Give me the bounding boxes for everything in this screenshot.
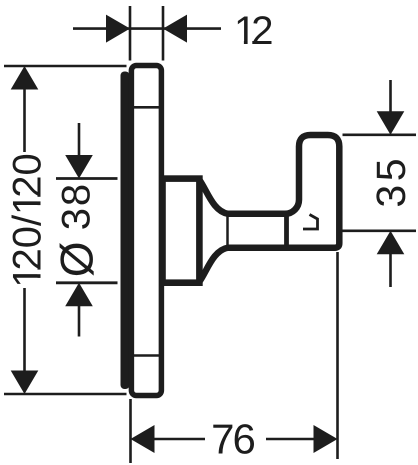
dim 35 arrow down [377, 111, 405, 135]
stem taper, neck and hook bar outline [200, 135, 339, 281]
svg-text:12: 12 [234, 9, 273, 53]
dim 38 arrow up [65, 283, 93, 307]
serif trim of rotated digit 1s [37, 270, 42, 275]
svg-text:120/120: 120/120 [6, 153, 50, 288]
dim 12 extension line left [129, 6, 132, 61]
dim 76 line left segment [153, 438, 205, 441]
dim 76 arrow right [314, 425, 338, 453]
plate inner line bottom [132, 354, 160, 357]
dim 12 arrow left [106, 15, 130, 43]
dim 120/120 extension line bottom [4, 393, 127, 396]
dim 38 line upper [78, 123, 81, 156]
svg-text:Ø 38: Ø 38 [51, 182, 103, 277]
dim 120/120 extension line top [4, 65, 127, 68]
escutcheon plate outline [131, 66, 161, 396]
dim 12 line left segment [73, 27, 221, 30]
dim 38 tick bottom [56, 281, 118, 284]
dim 76 extension line left [129, 399, 132, 463]
dim 76 line right segment [266, 438, 315, 441]
dim 35 line lower [389, 253, 392, 287]
svg-text:76: 76 [211, 416, 256, 463]
dim 35 line upper [389, 80, 392, 112]
dim 120/120 arrow up [11, 66, 39, 90]
dim 12 extension line right [162, 6, 165, 61]
dim 120/120 line lower segment [23, 288, 26, 372]
dim 76 arrow left [131, 425, 155, 453]
dim 76 extension line right [336, 252, 339, 459]
svg-text:35: 35 [368, 158, 414, 207]
dim 120/120 line upper segment [23, 88, 26, 152]
dim 38 line lower [78, 305, 81, 337]
dim 35 extension line bottom [339, 230, 417, 233]
dim 35 arrow up [377, 231, 405, 255]
joint line neck/hook [284, 216, 289, 246]
set-screw mark inside hook [303, 215, 318, 230]
dim 38 arrow down [65, 155, 93, 179]
dim 120/120 arrow down [11, 371, 39, 395]
plate inner line top [132, 106, 160, 109]
joint line taper/neck [226, 212, 229, 251]
dim 38 tick top [56, 177, 118, 180]
dim 35 extension line top [343, 134, 417, 137]
dim 12 arrow right [163, 15, 187, 43]
backplate bar (wall gasket, filled) [121, 72, 130, 390]
serif trim of digit 1 [236, 41, 244, 45]
stem flange [163, 179, 200, 283]
